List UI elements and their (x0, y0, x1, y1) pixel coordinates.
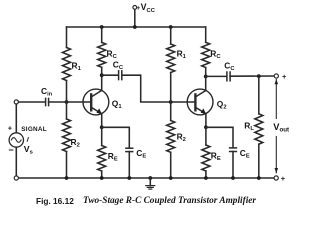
label RE stage1 (108, 151, 118, 163)
svg-text:RC: RC (107, 49, 118, 61)
wire Cin to Q1 base (49, 101, 91, 103)
svg-text:Cin: Cin (41, 86, 53, 98)
wire collector to CC1 (102, 74, 119, 76)
terminal +VCC (133, 6, 137, 10)
signal source VS circle (9, 133, 23, 147)
junction dot RL bottom (257, 176, 261, 180)
resistor R1 stage1 (63, 27, 71, 102)
capacitor CE stage1 (126, 148, 133, 151)
label plus output bottom (281, 174, 286, 183)
junction dot CE bottom stage2 (231, 176, 235, 180)
label Vout (273, 122, 289, 134)
junction dot R2 bottom stage2 (169, 176, 173, 180)
transistor Q2 (187, 89, 213, 115)
label +VCC (136, 2, 155, 14)
wire CC2 to output terminal (230, 75, 274, 77)
wire bottom rail (16, 177, 274, 179)
capacitor CC stage2 (227, 72, 230, 81)
wire CE1 to rail (128, 152, 130, 178)
svg-text:RE: RE (108, 151, 118, 163)
junction dot R1 R2 divider node stage1 (65, 100, 69, 104)
svg-text:CE: CE (240, 148, 250, 160)
junction dot VCC on rail (133, 25, 137, 29)
resistor RC stage1 (98, 27, 106, 90)
label Q1 (112, 98, 123, 110)
resistor RE stage2 (202, 127, 210, 178)
junction dot CE bottom stage1 (127, 176, 131, 180)
svg-text:CC: CC (113, 60, 124, 72)
svg-text:R1: R1 (177, 48, 187, 60)
svg-text:CC: CC (224, 61, 235, 73)
label plus output top (282, 72, 287, 81)
label Q2 (217, 99, 227, 111)
svg-text:+: + (281, 174, 286, 183)
terminal input top (14, 100, 18, 104)
wire input terminal down to source (15, 104, 17, 133)
wire CC1 to corner (122, 75, 195, 102)
svg-text:RC: RC (210, 49, 221, 61)
label plus of source (8, 123, 13, 132)
resistor R2 stage2 (167, 102, 175, 178)
resistor RC stage2 (202, 27, 210, 90)
junction dot RC top stage1 (100, 25, 104, 29)
resistor RL (255, 76, 263, 178)
resistor RE stage1 (98, 127, 106, 178)
svg-text:RE: RE (211, 151, 221, 163)
label CC stage2 (224, 61, 235, 73)
svg-text:SIGNAL: SIGNAL (21, 126, 47, 133)
label Vs (24, 144, 33, 156)
label RC stage1 (107, 49, 118, 61)
junction dot R2 bottom stage1 (65, 176, 69, 180)
wire Q2 emitter down (205, 114, 207, 128)
label CC stage1 (113, 60, 124, 72)
label Cin (41, 86, 53, 98)
svg-text:RL: RL (244, 121, 254, 133)
svg-text:Q1: Q1 (112, 98, 123, 110)
svg-text:R2: R2 (71, 137, 80, 149)
caption figure number (36, 196, 74, 206)
wire top VCC rail (67, 26, 206, 28)
wire collector to CC2 (206, 75, 227, 77)
svg-text:R1: R1 (72, 61, 82, 73)
capacitor CC stage1 (119, 71, 122, 80)
svg-text:+: + (8, 123, 13, 132)
junction dot collector tap stage2 (204, 75, 208, 79)
Vout arrow line lower (275, 137, 279, 174)
wire CE2 to rail (232, 152, 234, 179)
capacitor CE stage2 (230, 148, 237, 152)
junction dot divider node stage2 (169, 100, 173, 104)
sine wave inside source (11, 138, 21, 143)
junction dot emitter node stage2 (204, 125, 208, 129)
svg-text:−: − (8, 145, 13, 155)
svg-text:Vs: Vs (24, 144, 33, 156)
caption title (83, 196, 256, 206)
terminal output bottom (274, 176, 278, 180)
wire input to Cin (18, 101, 45, 103)
wire Q1 emitter down (101, 114, 103, 128)
label CE stage1 (136, 148, 146, 160)
svg-text:+VCC: +VCC (136, 2, 155, 14)
svg-text:CE: CE (136, 148, 146, 160)
label R1 stage1 (72, 61, 82, 73)
label R1 stage2 (177, 48, 187, 60)
wire VCC stub (134, 9, 136, 27)
junction dot RL top (257, 74, 261, 78)
label RE stage2 (211, 151, 221, 163)
resistor R2 stage1 (63, 102, 71, 178)
wire emitter to CE1 (102, 127, 130, 148)
junction dot RE bottom stage2 (204, 176, 208, 180)
Vout arrow line upper (275, 79, 279, 118)
junction dot R1 top stage2 (169, 25, 173, 29)
junction dot collector tap stage1 (100, 73, 104, 77)
svg-text:+: + (282, 72, 287, 81)
terminal output top (274, 74, 278, 78)
transistor Q1 (83, 89, 109, 115)
terminal bottom left (14, 176, 18, 180)
label R2 stage1 (71, 137, 80, 149)
wire emitter to CE2 (206, 127, 233, 147)
svg-text:Q2: Q2 (217, 99, 227, 111)
wire source to bottom rail (15, 147, 17, 178)
junction dot emitter node stage1 (100, 125, 104, 129)
label RC stage2 (210, 49, 221, 61)
label CE stage2 (240, 148, 250, 160)
capacitor Cin (46, 98, 49, 105)
junction dot RE bottom stage1 (100, 176, 104, 180)
label SIGNAL (21, 126, 47, 133)
label R2 stage2 (177, 131, 186, 143)
svg-text:R2: R2 (177, 131, 186, 143)
svg-text:Vout: Vout (273, 122, 289, 134)
ground (146, 176, 155, 189)
resistor R1 stage2 (167, 27, 175, 102)
label RL (244, 121, 254, 133)
label minus of source (8, 145, 13, 155)
